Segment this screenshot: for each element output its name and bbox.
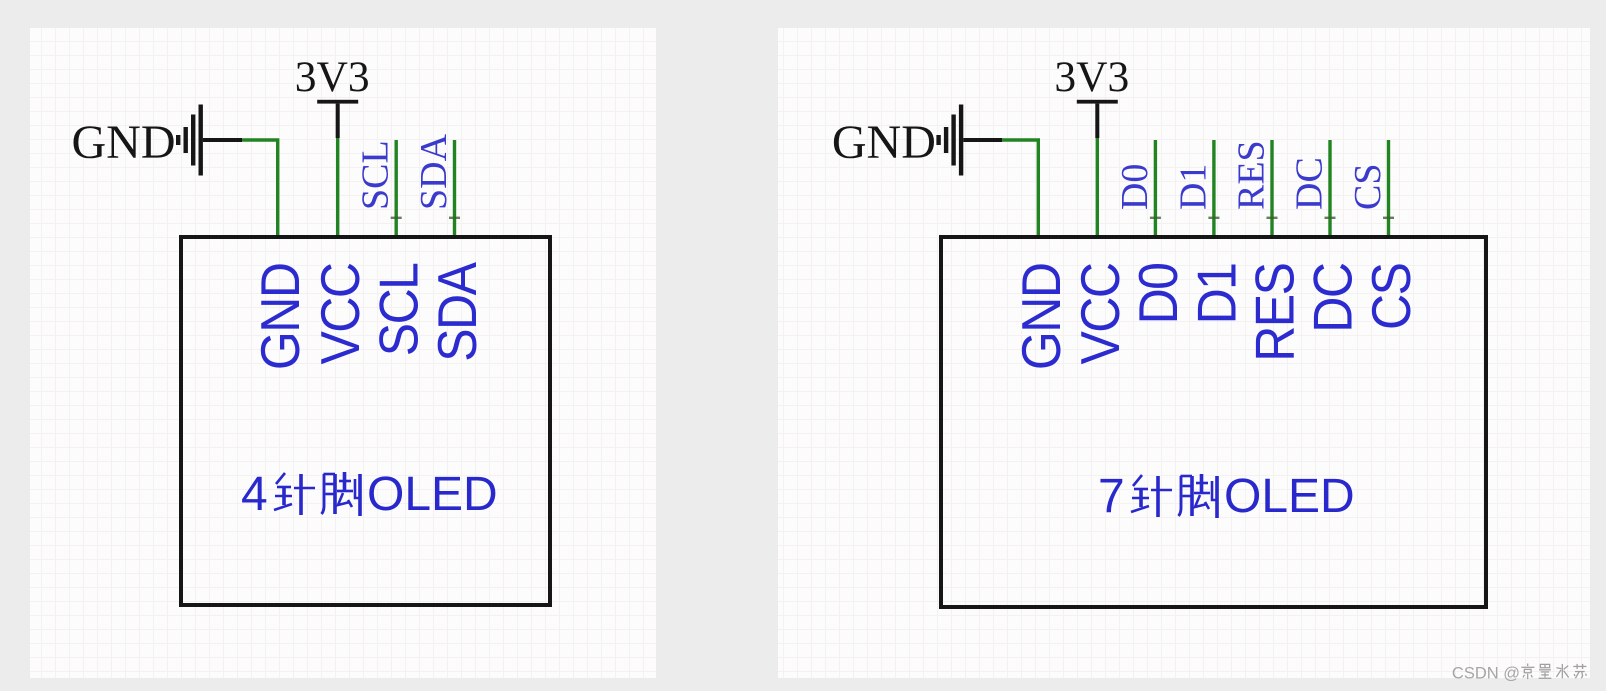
svg-text:DC: DC: [1289, 157, 1331, 210]
svg-text:D1: D1: [1186, 264, 1248, 325]
svg-text:DC: DC: [1302, 264, 1364, 333]
svg-text:SCL: SCL: [369, 263, 431, 356]
svg-text:3V3: 3V3: [295, 53, 370, 101]
svg-text:GND: GND: [832, 116, 936, 169]
svg-text:VCC: VCC: [310, 264, 372, 365]
svg-text:4: 4: [241, 468, 268, 521]
svg-text:D0: D0: [1114, 164, 1156, 210]
svg-text:D0: D0: [1128, 263, 1190, 324]
svg-text:RES: RES: [1244, 264, 1306, 362]
svg-text:D1: D1: [1172, 164, 1214, 210]
svg-text:SDA: SDA: [413, 133, 455, 210]
svg-text:7: 7: [1098, 470, 1125, 523]
svg-text:CS: CS: [1347, 164, 1389, 210]
svg-text:GND: GND: [250, 264, 312, 371]
svg-text:SCL: SCL: [355, 140, 397, 210]
svg-text:CSDN @: CSDN @: [1452, 665, 1520, 683]
svg-text:3V3: 3V3: [1054, 53, 1129, 101]
svg-text:OLED: OLED: [367, 468, 498, 521]
svg-text:RES: RES: [1231, 140, 1273, 210]
svg-text:SDA: SDA: [427, 262, 489, 362]
svg-text:VCC: VCC: [1070, 264, 1132, 365]
svg-text:OLED: OLED: [1224, 470, 1355, 523]
svg-text:GND: GND: [72, 116, 176, 169]
svg-text:GND: GND: [1011, 264, 1073, 371]
svg-text:CS: CS: [1361, 264, 1423, 330]
